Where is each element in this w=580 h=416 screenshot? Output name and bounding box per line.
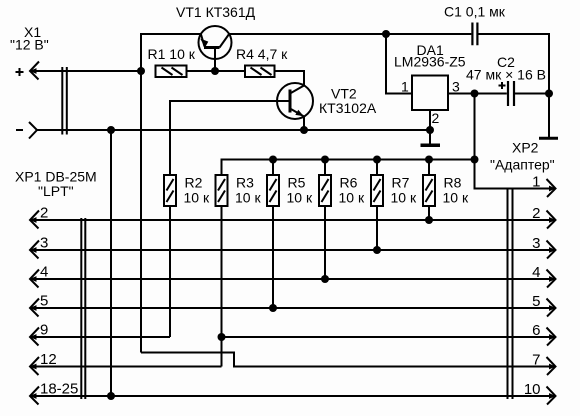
wire R8 bottom [428, 206, 430, 220]
pin 7 XP2 [532, 352, 556, 376]
svg-text:R6: R6 [340, 175, 358, 191]
wire VT1 collector rail to C1 [229, 33, 471, 35]
pin 5 XP2 [532, 293, 556, 317]
node A junction +12V [137, 67, 145, 75]
wire VT1 base node to R4 [215, 70, 245, 72]
node minus branch to LPT ground [107, 126, 115, 134]
resistor R1 10 к [148, 46, 196, 77]
svg-text:C1 0,1 мк: C1 0,1 мк [444, 4, 506, 20]
wire R3 bottom to XP1 pin 12 [221, 206, 223, 367]
wire +5V vertical to XP2 pin 1 [475, 94, 556, 189]
wire +12V from X1 plus to node A [30, 70, 141, 72]
wire R8 top stub [428, 160, 430, 176]
node VT1 base junction [211, 67, 219, 75]
svg-text:LM2936-Z5: LM2936-Z5 [394, 54, 466, 70]
node DA1 input branch [382, 30, 390, 38]
svg-text:4: 4 [40, 264, 48, 281]
svg-text:10 к: 10 к [443, 190, 469, 206]
svg-text:1: 1 [401, 79, 409, 95]
node VT2 emitter on minus bus [300, 126, 308, 134]
ground symbol DA1 [421, 144, 441, 148]
pin 3 XP2 [532, 235, 556, 259]
pin 10 XP2 [524, 381, 556, 405]
svg-text:5: 5 [40, 293, 48, 310]
node +5V output junction [471, 90, 479, 98]
wire R2 bottom to XP1 pin 9 [169, 206, 171, 337]
svg-text:3: 3 [40, 235, 48, 252]
svg-text:47 мк × 16 В: 47 мк × 16 В [466, 67, 546, 83]
transistor VT2 КТ3102А (NPN) [277, 83, 377, 130]
svg-text:18-25: 18-25 [40, 381, 78, 398]
svg-text:10 к: 10 к [287, 190, 313, 206]
svg-text:10: 10 [524, 381, 541, 398]
node R8 on pin 2 line [425, 216, 433, 224]
capacitor C2 47 мк 16 В [466, 54, 546, 106]
wire VT2 base to R2 [170, 101, 290, 175]
svg-text:10 к: 10 к [391, 190, 417, 206]
wire R7 top stub [376, 160, 378, 176]
node R3 column to XP2 pin 6 [218, 333, 226, 341]
wire pin 5 row [30, 307, 556, 309]
node R8 on +5V bus [425, 156, 433, 164]
wire R4 to VT2 collector [275, 71, 305, 86]
pin 4 XP1 [30, 264, 49, 288]
connector XP1 DB-25M "LPT" [15, 169, 97, 405]
svg-text:VT1 КТ361Д: VT1 КТ361Д [176, 4, 256, 20]
svg-text:6: 6 [532, 322, 540, 339]
svg-text:7: 7 [532, 352, 540, 369]
wire ground vertical to pins 18-25 [110, 130, 112, 396]
resistor R7 10 к [371, 175, 417, 207]
svg-text:"LPT": "LPT" [38, 183, 74, 199]
resistor R8 10 к [423, 175, 469, 207]
wire R6 top stub [324, 160, 326, 176]
wire +5V pull-up bus [222, 160, 475, 176]
svg-text:R3: R3 [236, 175, 254, 191]
resistor R3 10 к [216, 175, 262, 207]
wire DA1 pin 1 input [386, 34, 412, 95]
wire pins 18-25 to XP2 pin 10 [30, 395, 556, 397]
svg-text:5: 5 [532, 293, 540, 310]
wire R7 bottom [376, 206, 378, 250]
pin 2 XP2 [532, 205, 556, 229]
resistor R4 4,7 к [236, 46, 288, 77]
svg-text:R2: R2 [185, 175, 203, 191]
svg-text:"Адаптер": "Адаптер" [490, 157, 555, 173]
svg-text:10 к: 10 к [235, 190, 261, 206]
node +5V to pull-up bus [471, 156, 479, 164]
wire C2 to ground corner [515, 93, 549, 95]
svg-text:1: 1 [532, 174, 540, 191]
ground symbol right [539, 137, 558, 140]
wire VT1 emitter rail and +12V vertical [141, 34, 201, 353]
svg-text:2: 2 [532, 205, 540, 222]
connector XP2 "Адаптер" [490, 140, 556, 405]
node C2 ground junction [545, 90, 553, 98]
svg-text:3: 3 [452, 79, 460, 95]
svg-text:R5: R5 [288, 175, 306, 191]
svg-text:КТ3102А: КТ3102А [319, 100, 377, 116]
svg-text:4: 4 [532, 264, 540, 281]
node DA1 pin 2 on minus bus [426, 126, 434, 134]
svg-text:3: 3 [532, 235, 540, 252]
wire DA1 pin 2 to ground [430, 110, 440, 144]
svg-text:10 к: 10 к [339, 190, 365, 206]
node R7 on +5V bus [373, 156, 381, 164]
svg-text:9: 9 [40, 322, 48, 339]
svg-text:XP2: XP2 [512, 140, 539, 156]
pin 6 XP2 [532, 322, 556, 346]
pin 9 XP1 [30, 322, 49, 346]
pin 18-25 XP1 [30, 381, 79, 405]
node R6 on pin 4 line [321, 275, 329, 283]
node R5 on +5V bus [269, 156, 277, 164]
wire +12V jog to XP2 pin 7 [141, 353, 556, 367]
pin 3 XP1 [30, 235, 49, 259]
pin 1 XP2 [532, 174, 556, 198]
svg-text:R4 4,7 к: R4 4,7 к [236, 46, 288, 62]
wire pin 4 row [30, 278, 556, 280]
wire pin 3 row [30, 249, 556, 251]
resistor R2 10 к [164, 175, 210, 207]
connector X1 "12 В" [10, 24, 67, 139]
svg-text:12: 12 [40, 351, 57, 368]
op-amp U1 / regulator DA1 LM2936-Z5 [394, 42, 466, 110]
svg-text:2: 2 [432, 110, 440, 126]
svg-text:2: 2 [40, 205, 48, 222]
wire pin 2 row [30, 219, 556, 221]
node ground at pins 18-25 line [107, 392, 115, 400]
wire R1 to VT1 base node [187, 70, 216, 72]
svg-text:"12 В": "12 В" [10, 37, 49, 53]
svg-text:R1 10 к: R1 10 к [148, 46, 196, 62]
wire R5 top stub [272, 160, 274, 176]
pin 4 XP2 [532, 264, 556, 288]
pin 2 XP1 [30, 205, 49, 229]
wire XP1 pin 9 to R2 [30, 336, 170, 338]
pin 12 XP1 [30, 351, 57, 375]
node R5 on pin 5 line [269, 304, 277, 312]
capacitor C1 0,1 мк [444, 4, 506, 46]
wire XP1 pin 12 to R3 [30, 366, 222, 368]
node R7 on pin 3 line [373, 246, 381, 254]
wire R3 node to XP2 pin 6 [222, 336, 556, 338]
wire R6 bottom [324, 206, 326, 279]
pin 5 XP1 [30, 293, 49, 317]
wire DA1 pin 3 output [448, 79, 507, 95]
svg-text:R8: R8 [444, 175, 462, 191]
wire minus bus from X1 to DA1 pin 2 [37, 129, 430, 131]
svg-text:R7: R7 [392, 175, 410, 191]
svg-text:10 к: 10 к [184, 190, 210, 206]
node R6 on +5V bus [321, 156, 329, 164]
wire C1 to right corner and ground [478, 34, 549, 137]
transistor VT1 КТ361Д (PNP) [176, 4, 256, 71]
resistor R6 10 к [319, 175, 365, 207]
resistor R5 10 к [267, 175, 313, 207]
wire R5 bottom [272, 206, 274, 308]
